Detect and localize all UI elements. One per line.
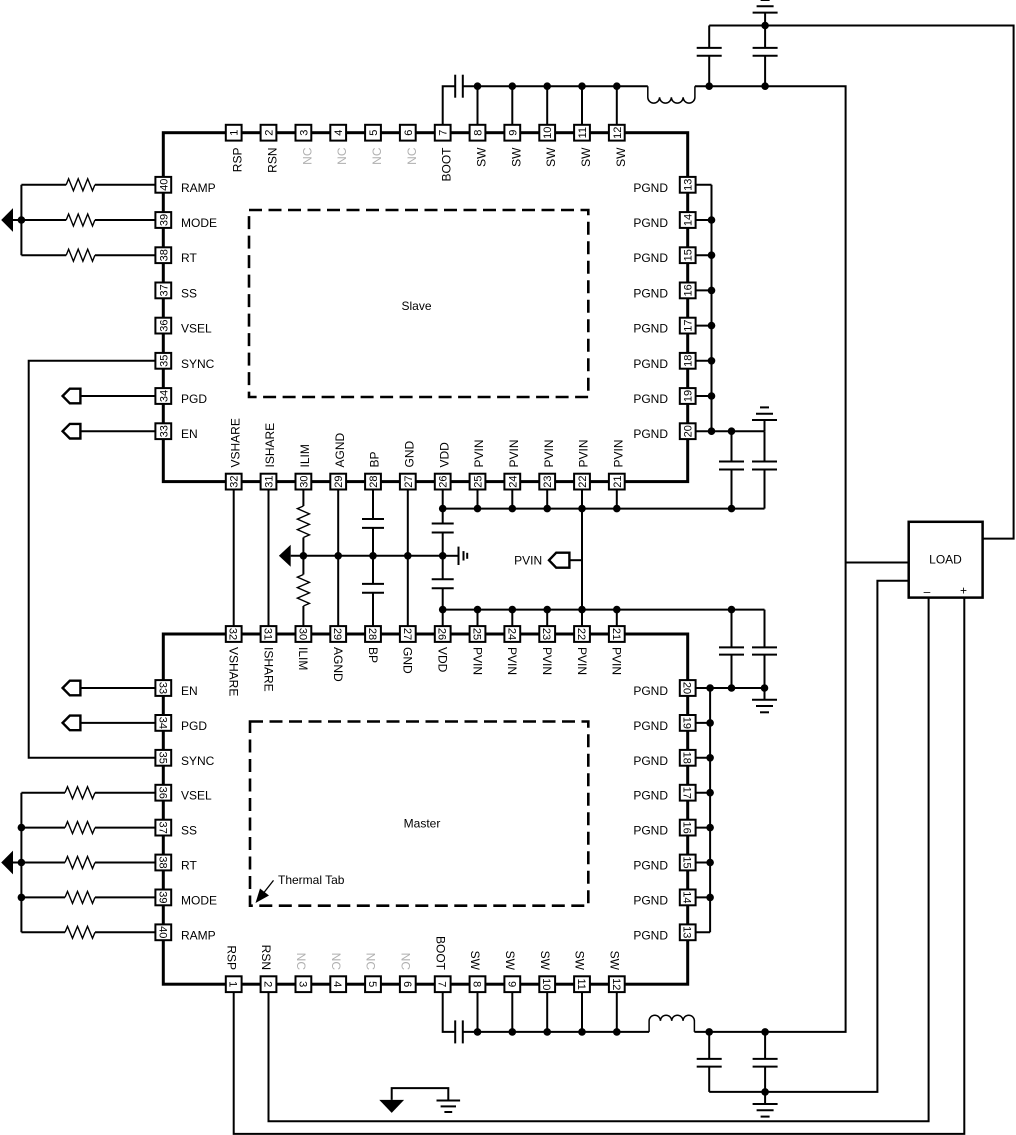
wire Master PGND pin 13 stub xyxy=(688,931,710,933)
wire ISHARE net: Slave pin 31 to Master pin 31 xyxy=(268,482,270,634)
svg-text:VSEL: VSEL xyxy=(181,322,212,336)
wire left of resistor R_MODE1 (Slave MODE row) xyxy=(21,219,66,221)
wire VOUT branch to LOAD xyxy=(846,562,909,564)
svg-text:34: 34 xyxy=(156,717,168,729)
resistor R_RAMP1 (Slave RAMP) xyxy=(66,179,95,191)
junction master PVIN bus / VDD xyxy=(439,606,447,614)
svg-text:29: 29 xyxy=(331,628,343,640)
wire Master PGND pin 20 row xyxy=(688,687,765,689)
svg-text:PGND: PGND xyxy=(633,684,668,698)
svg-text:17: 17 xyxy=(683,319,695,331)
svg-text:RT: RT xyxy=(181,251,197,265)
svg-text:8: 8 xyxy=(471,981,483,987)
pin 29 box (Master AGND) xyxy=(330,626,346,642)
capacitor C_IN3 (master input bypass) xyxy=(731,610,733,648)
pin 9 box (Slave SW) xyxy=(504,125,520,141)
junction master PGND bus row 15 xyxy=(706,859,714,867)
svg-text:29: 29 xyxy=(333,475,345,487)
junction Slave SW bus pin 12 xyxy=(613,82,621,90)
svg-text:PGD: PGD xyxy=(181,719,207,733)
svg-text:20: 20 xyxy=(681,682,693,694)
pin 37 box (Master SS) xyxy=(155,820,171,836)
wire Slave BOOT pin 7 up to bootstrap capacitor xyxy=(443,86,456,133)
svg-text:38: 38 xyxy=(156,856,168,868)
wire Master PGND pin 17 stub xyxy=(688,792,710,794)
svg-text:GND: GND xyxy=(402,441,416,468)
svg-text:AGND: AGND xyxy=(333,432,347,467)
pin 21 box (Slave PVIN) xyxy=(609,474,625,490)
junction VOUT slave cap 1 xyxy=(705,82,713,90)
pin 39 box (Slave MODE) xyxy=(155,212,171,228)
pin 6 box (Master NC) xyxy=(400,976,416,992)
svg-text:PGND: PGND xyxy=(633,754,668,768)
wire Master PVIN pin 24 to PVIN bus xyxy=(511,610,513,634)
svg-text:NC: NC xyxy=(294,953,308,971)
svg-text:NC: NC xyxy=(398,953,412,971)
resistor R_VSEL2 (Master VSEL) xyxy=(65,787,95,799)
svg-text:24: 24 xyxy=(505,628,517,640)
junction slave PVIN bus col 8 xyxy=(474,505,482,513)
junction slave PGND bus row 14 xyxy=(708,216,716,224)
capacitor C_BP2 (Master) xyxy=(372,556,374,584)
wire left of resistor R_RT1 (Slave RT row) xyxy=(21,254,66,256)
capacitor C_BOOT1 (Slave bootstrap) xyxy=(454,75,456,98)
svg-text:+: + xyxy=(960,584,967,598)
svg-text:14: 14 xyxy=(683,214,695,226)
svg-text:EN: EN xyxy=(181,427,198,441)
svg-text:5: 5 xyxy=(366,981,378,987)
capacitor C_OUT2 (slave output) xyxy=(764,26,766,48)
capacitor C_IN4 (master input bypass) xyxy=(764,610,766,648)
pin 17 box (Slave PGND) xyxy=(680,318,696,334)
pin 13 box (Master PGND) xyxy=(680,924,696,940)
ground earth symbol (master output) xyxy=(764,1092,766,1104)
svg-text:SW: SW xyxy=(468,951,482,971)
wire Slave PGND pin 16 stub xyxy=(688,289,712,291)
junction slave PGND bus row 15 xyxy=(708,251,716,259)
svg-text:3: 3 xyxy=(298,130,310,136)
wire Slave SW pin 10 to SW bus xyxy=(546,86,548,133)
pin 12 box (Slave SW) xyxy=(609,125,625,141)
pin 14 box (Master PGND) xyxy=(680,890,696,906)
wire AGND mid rail xyxy=(291,555,445,557)
pin 22 box (Slave PVIN) xyxy=(574,474,590,490)
svg-text:ILIM: ILIM xyxy=(296,647,310,670)
svg-text:16: 16 xyxy=(683,284,695,296)
svg-text:RAMP: RAMP xyxy=(181,181,216,195)
wire Slave PGND pin 18 stub xyxy=(688,360,712,362)
wire Slave PGND pin 13 stub xyxy=(688,184,712,186)
pin 2 box (Master RSN) xyxy=(261,976,277,992)
wire AGND to PGND tie xyxy=(392,1088,449,1100)
pin 40 box (Slave RAMP) xyxy=(155,177,171,193)
pin 32 box (Slave VSHARE) xyxy=(226,474,242,490)
wire Master SW bus xyxy=(463,1031,649,1033)
capacitor C_IN2 (slave input bypass) xyxy=(764,431,766,461)
wire master PVIN bus xyxy=(443,609,765,611)
svg-text:SW: SW xyxy=(544,147,558,167)
svg-text:6: 6 xyxy=(403,130,415,136)
svg-text:33: 33 xyxy=(158,425,170,437)
svg-text:PGND: PGND xyxy=(633,719,668,733)
junction master resistor bus row 38 xyxy=(18,859,26,867)
svg-text:6: 6 xyxy=(401,981,413,987)
svg-text:PGND: PGND xyxy=(633,789,668,803)
wire left of resistor R_MODE2 (Master MODE row) xyxy=(21,896,65,898)
resistor R_ILIM1 (Slave) xyxy=(297,506,309,538)
svg-text:7: 7 xyxy=(438,130,450,136)
junction Master SW bus pin 10 xyxy=(543,1028,551,1036)
svg-text:PGND: PGND xyxy=(633,824,668,838)
wire Master VDD pin 26 xyxy=(442,610,444,634)
svg-text:30: 30 xyxy=(298,475,310,487)
svg-text:28: 28 xyxy=(366,628,378,640)
svg-text:AGND: AGND xyxy=(331,647,345,682)
svg-text:21: 21 xyxy=(610,628,622,640)
wire Master PVIN pin 25 to PVIN bus xyxy=(477,610,479,634)
svg-text:17: 17 xyxy=(681,787,693,799)
svg-text:ISHARE: ISHARE xyxy=(263,423,277,468)
svg-text:BP: BP xyxy=(366,647,380,663)
wire slave PVIN bus xyxy=(443,508,765,510)
wire Master SW pin 11 to SW bus xyxy=(581,984,583,1032)
pin 32 box (Master VSHARE) xyxy=(226,626,242,642)
pin 34 box (Master PGD) xyxy=(155,715,171,731)
ground earth symbol (tie point) xyxy=(437,1100,461,1102)
svg-text:3: 3 xyxy=(296,981,308,987)
svg-text:VSHARE: VSHARE xyxy=(227,647,241,696)
svg-text:LOAD: LOAD xyxy=(929,553,962,567)
resistor R_RT1 (Slave RT) xyxy=(66,249,95,261)
pin 35 box (Master SYNC) xyxy=(155,750,171,766)
pin 23 box (Master PVIN) xyxy=(539,626,555,642)
junction VOUT master cap 1 xyxy=(705,1028,713,1036)
ground AGND arrow (master left) xyxy=(1,851,13,875)
svg-text:VDD: VDD xyxy=(437,442,451,468)
pin 21 box (Master PVIN) xyxy=(609,626,625,642)
wire Master PGND pin 19 stub xyxy=(688,722,710,724)
wire Master SW pin 10 to SW bus xyxy=(546,984,548,1032)
svg-text:22: 22 xyxy=(575,628,587,640)
pin 26 box (Slave VDD) xyxy=(435,474,451,490)
svg-text:13: 13 xyxy=(683,179,695,191)
pin 24 box (Master PVIN) xyxy=(504,626,520,642)
wire Master BOOT pin 7 down to bootstrap capacitor xyxy=(443,984,456,1032)
junction slave PGND bus row 19 xyxy=(708,392,716,400)
pin 31 box (Slave ISHARE) xyxy=(261,474,277,490)
svg-text:26: 26 xyxy=(438,475,450,487)
pin 22 box (Master PVIN) xyxy=(574,626,590,642)
wire master output ground rail to LOAD lower-left xyxy=(709,581,909,1092)
svg-text:–: – xyxy=(924,585,931,599)
junction master PGND20 / C_IN4 xyxy=(761,684,769,692)
resistor R_SS2 (Master SS) xyxy=(65,822,95,834)
pin 23 box (Slave PVIN) xyxy=(539,474,555,490)
svg-text:25: 25 xyxy=(471,628,483,640)
wire Master EN pin 33 to flag xyxy=(80,687,163,689)
svg-text:RT: RT xyxy=(181,859,197,873)
ground earth symbol (master PGND) xyxy=(764,688,766,700)
svg-text:NC: NC xyxy=(364,953,378,971)
svg-text:23: 23 xyxy=(542,475,554,487)
pin 30 box (Slave ILIM) xyxy=(296,474,312,490)
svg-text:Thermal Tab: Thermal Tab xyxy=(278,873,345,887)
resistor R_MODE1 (Slave MODE) xyxy=(66,214,95,226)
wire PVIN column: slave PVIN bus to master PVIN bus xyxy=(581,509,583,610)
svg-text:SYNC: SYNC xyxy=(181,754,215,768)
svg-text:Slave: Slave xyxy=(401,299,431,313)
junction master PVIN bus col 12 xyxy=(613,606,621,614)
wire AGND stub to master resistor bus xyxy=(13,862,21,864)
junction master PVIN bus col 8 xyxy=(474,606,482,614)
wire Slave SW pin 9 to SW bus xyxy=(511,86,513,133)
svg-text:PGND: PGND xyxy=(633,251,668,265)
pin 14 box (Slave PGND) xyxy=(680,212,696,228)
wire VSHARE net: Slave pin 32 to Master pin 32 xyxy=(233,482,235,634)
junction AGND rail / ILIM xyxy=(300,552,308,560)
svg-text:33: 33 xyxy=(156,682,168,694)
ground AGND arrow (tie point) xyxy=(379,1100,404,1113)
svg-text:31: 31 xyxy=(262,628,274,640)
capacitor C_OUT4 (master output) xyxy=(764,1032,766,1059)
svg-text:GND: GND xyxy=(401,647,415,674)
svg-text:SS: SS xyxy=(181,824,197,838)
wire C_VDD1 to AGND rail xyxy=(442,533,444,556)
svg-text:SW: SW xyxy=(538,951,552,971)
pin 25 box (Slave PVIN) xyxy=(470,474,486,490)
wire GND columns: Slave pin 27 to Master pin 27 xyxy=(407,482,409,634)
junction Master SW bus pin 8 xyxy=(474,1028,482,1036)
svg-text:NC: NC xyxy=(300,147,314,165)
junction Slave SW bus pin 11 xyxy=(578,82,586,90)
svg-text:Master: Master xyxy=(404,817,441,831)
svg-text:12: 12 xyxy=(610,978,622,990)
junction AGND rail / GND pins xyxy=(404,552,412,560)
svg-text:39: 39 xyxy=(156,891,168,903)
svg-text:14: 14 xyxy=(681,891,693,903)
svg-text:25: 25 xyxy=(473,475,485,487)
wire Master PGD pin 34 to flag xyxy=(80,722,163,724)
svg-text:4: 4 xyxy=(333,130,345,136)
wire left of resistor R_VSEL2 (Master VSEL row) xyxy=(21,792,65,794)
pin 2 box (Slave RSN) xyxy=(261,125,277,141)
svg-text:SW: SW xyxy=(607,951,621,971)
junction VOUT master cap 2 xyxy=(761,1028,769,1036)
pin 28 box (Master BP) xyxy=(365,626,381,642)
pin 18 box (Master PGND) xyxy=(680,750,696,766)
svg-text:MODE: MODE xyxy=(181,893,217,907)
resistor R_RAMP2 (Master RAMP) xyxy=(65,926,95,938)
junction VOUT slave cap 2 xyxy=(761,82,769,90)
pin 37 box (Slave SS) xyxy=(155,283,171,299)
wire resistor R_RAMP1 to Slave pin 40 xyxy=(95,184,163,186)
svg-text:37: 37 xyxy=(156,821,168,833)
pin 8 box (Master SW) xyxy=(470,976,486,992)
junction Slave SW bus pin 8 xyxy=(474,82,482,90)
svg-text:PGND: PGND xyxy=(633,427,668,441)
svg-text:27: 27 xyxy=(401,628,413,640)
wire Slave EN pin 33 to flag xyxy=(80,430,163,432)
junction master PGND bus row 16 xyxy=(706,824,714,832)
pin 29 box (Slave AGND) xyxy=(330,474,346,490)
resistor R_RT2 (Master RT) xyxy=(65,857,95,869)
junction slave PVIN bus col 11 xyxy=(578,505,586,513)
junction master PVIN bus / C_IN3 xyxy=(728,606,736,614)
svg-text:36: 36 xyxy=(156,787,168,799)
svg-text:22: 22 xyxy=(577,475,589,487)
wire Slave PVIN pin 21 to PVIN bus xyxy=(616,482,618,509)
svg-text:11: 11 xyxy=(575,978,587,989)
svg-text:VSEL: VSEL xyxy=(181,789,212,803)
svg-text:26: 26 xyxy=(436,628,448,640)
wire Slave PVIN pin 22 to PVIN bus xyxy=(581,482,583,509)
capacitor C_VDD1 (Slave) xyxy=(432,523,454,525)
pin 10 box (Slave SW) xyxy=(539,125,555,141)
LOAD box xyxy=(909,522,983,598)
wire resistor R_RT2 to Master pin 38 xyxy=(95,862,163,864)
svg-text:37: 37 xyxy=(158,284,170,296)
svg-text:10: 10 xyxy=(540,978,552,990)
wire left of resistor R_RAMP1 (Slave RAMP row) xyxy=(21,184,66,186)
junction slave PVIN bus / VDD xyxy=(439,505,447,513)
svg-text:PGD: PGD xyxy=(181,392,207,406)
svg-text:24: 24 xyxy=(507,475,519,487)
wire C_BP1 to AGND rail xyxy=(372,528,374,556)
svg-text:PGND: PGND xyxy=(633,216,668,230)
pin 10 box (Master SW) xyxy=(539,976,555,992)
flag EN (Slave) xyxy=(63,424,81,439)
pin 11 box (Master SW) xyxy=(574,976,590,992)
pin 1 box (Master RSP) xyxy=(226,976,242,992)
svg-text:PVIN: PVIN xyxy=(577,439,591,467)
pin 11 box (Slave SW) xyxy=(574,125,590,141)
capacitor C_IN1 (slave input bypass) xyxy=(731,431,733,461)
svg-text:PVIN: PVIN xyxy=(610,647,624,675)
junction master resistor bus row 39 xyxy=(18,894,26,902)
inductor L2 (Master phase) xyxy=(649,1015,694,1032)
svg-text:PVIN: PVIN xyxy=(470,647,484,675)
svg-text:12: 12 xyxy=(612,127,624,139)
wire slave PGND bus vertical xyxy=(711,185,713,431)
junction slave PVIN bus col 10 xyxy=(543,505,551,513)
junction slave PGND20 / PGND bus xyxy=(708,427,716,435)
ground earth symbol (slave PGND, inverted) xyxy=(764,420,766,431)
svg-text:PGND: PGND xyxy=(633,181,668,195)
pin 28 box (Slave BP) xyxy=(365,474,381,490)
svg-text:23: 23 xyxy=(540,628,552,640)
wire Slave SW pin 12 to SW bus xyxy=(616,86,618,133)
svg-text:PVIN: PVIN xyxy=(611,439,625,467)
svg-text:38: 38 xyxy=(158,249,170,261)
pin 1 box (Slave RSP) xyxy=(226,125,242,141)
svg-text:PVIN: PVIN xyxy=(505,647,519,675)
wire Master PVIN pin 22 to PVIN bus xyxy=(581,610,583,634)
svg-text:SW: SW xyxy=(614,147,628,167)
junction AGND rail / VDD xyxy=(439,552,447,560)
wire resistor R_RT1 to Slave pin 38 xyxy=(95,254,163,256)
pin 34 box (Slave PGD) xyxy=(155,388,171,404)
wire Master PGND pin 15 stub xyxy=(688,862,710,864)
junction slave PVIN bus / C_IN1 xyxy=(728,505,736,513)
junction Slave SW bus pin 10 xyxy=(543,82,551,90)
wire Slave BP pin 28 to capacitor xyxy=(372,482,374,519)
svg-text:18: 18 xyxy=(681,752,693,764)
svg-text:NC: NC xyxy=(405,147,419,165)
svg-text:2: 2 xyxy=(262,981,274,987)
junction master PGND bus row 19 xyxy=(706,719,714,727)
junction master PVIN bus col 10 xyxy=(543,606,551,614)
wire Master PVIN pin 23 to PVIN bus xyxy=(546,610,548,634)
wire slave resistor bus vertical xyxy=(20,185,22,255)
junction slave PGND bus row 18 xyxy=(708,357,716,365)
wire resistor R_VSEL2 to Master pin 36 xyxy=(95,792,163,794)
svg-text:15: 15 xyxy=(681,856,693,868)
capacitor C_BP1 (Slave) xyxy=(362,518,384,520)
junction slave PGND bus row 16 xyxy=(708,287,716,295)
svg-text:PGND: PGND xyxy=(633,928,668,942)
svg-text:SS: SS xyxy=(181,286,197,300)
junction master PVIN bus col 9 xyxy=(509,606,517,614)
svg-text:40: 40 xyxy=(158,179,170,191)
wire Master SW pin 8 to SW bus xyxy=(477,984,479,1032)
svg-text:1: 1 xyxy=(227,981,239,987)
pin 20 box (Slave PGND) xyxy=(680,423,696,439)
wire Slave PGND pin 14 stub xyxy=(688,219,712,221)
wire RSN net: Master pin 2 to LOAD minus xyxy=(269,598,929,1122)
junction Master SW bus pin 11 xyxy=(578,1028,586,1036)
pin 5 box (Slave NC) xyxy=(365,125,381,141)
svg-text:NC: NC xyxy=(370,147,384,165)
svg-text:SW: SW xyxy=(573,951,587,971)
junction Slave SW bus pin 9 xyxy=(509,82,517,90)
svg-text:SW: SW xyxy=(503,951,517,971)
wire SYNC net: Slave pin 35 to Master pin 35 xyxy=(29,361,164,758)
Slave thermal pad (dashed) xyxy=(249,210,588,397)
svg-text:32: 32 xyxy=(227,628,239,640)
svg-text:7: 7 xyxy=(436,981,448,987)
svg-text:BOOT: BOOT xyxy=(440,147,454,182)
pin 39 box (Master MODE) xyxy=(155,890,171,906)
svg-text:30: 30 xyxy=(296,628,308,640)
svg-text:4: 4 xyxy=(331,981,343,987)
svg-text:PVIN: PVIN xyxy=(507,439,521,467)
thermal tab pointer arrow xyxy=(262,880,274,895)
ground AGND arrow (mid rail) xyxy=(279,545,291,567)
pin 30 box (Master ILIM) xyxy=(296,626,312,642)
wire Slave VDD pin 26 down xyxy=(442,482,444,524)
wire Slave PGND pin 19 stub xyxy=(688,395,712,397)
pin 7 box (Master BOOT) xyxy=(435,976,451,992)
pin 8 box (Slave SW) xyxy=(470,125,486,141)
resistor R_MODE2 (Master MODE) xyxy=(65,891,95,903)
svg-text:40: 40 xyxy=(156,926,168,938)
svg-text:BOOT: BOOT xyxy=(433,936,447,971)
svg-text:NC: NC xyxy=(335,147,349,165)
svg-text:PGND: PGND xyxy=(633,392,668,406)
svg-text:18: 18 xyxy=(683,355,695,367)
flag PVIN input xyxy=(549,553,569,568)
wire Slave PGD pin 34 to flag xyxy=(80,395,163,397)
junction master resistor bus row 37 xyxy=(18,824,26,832)
capacitor C_OUT3 (master output) xyxy=(708,1032,710,1059)
wire Master PGND pin 16 stub xyxy=(688,827,710,829)
svg-text:PVIN: PVIN xyxy=(575,647,589,675)
svg-text:2: 2 xyxy=(264,130,276,136)
wire Master PVIN pin 21 to PVIN bus xyxy=(616,610,618,634)
pin 17 box (Master PGND) xyxy=(680,785,696,801)
svg-text:PGND: PGND xyxy=(633,357,668,371)
pin 36 box (Slave VSEL) xyxy=(155,318,171,334)
